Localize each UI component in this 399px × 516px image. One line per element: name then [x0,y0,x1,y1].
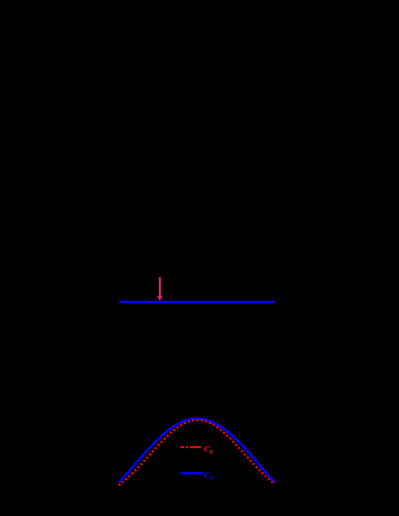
analytical concentration curve (red dashed) [119,420,275,485]
baseline c=0 (top subplot, blue) [119,301,275,303]
legend: blue solid sample [181,472,204,474]
legend: red dash-dot sample [181,446,201,448]
numerical concentration curve (blue solid) [119,419,275,483]
delta injection arrow (magenta) [157,277,162,301]
